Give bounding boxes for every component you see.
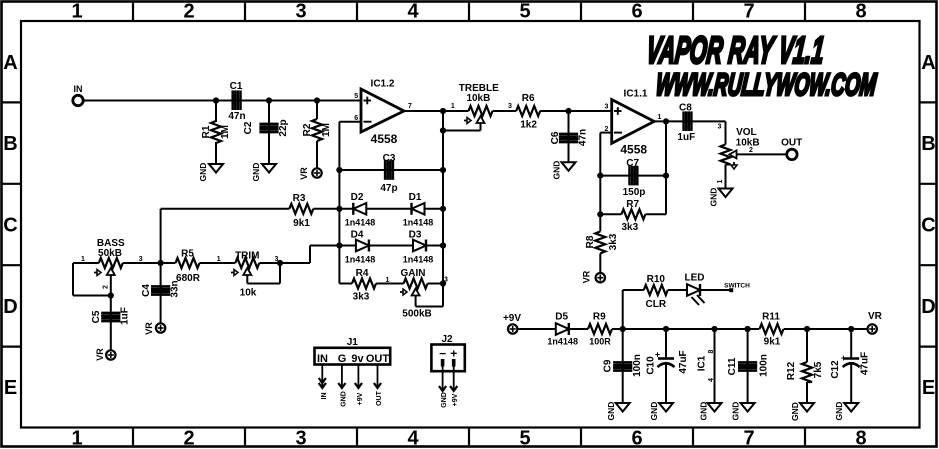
svg-text:47uF: 47uF: [860, 352, 871, 375]
svg-text:8: 8: [855, 1, 866, 23]
svg-text:C: C: [921, 215, 935, 237]
svg-text:2: 2: [749, 147, 753, 154]
svg-text:3: 3: [139, 256, 143, 263]
svg-text:3: 3: [718, 124, 722, 131]
svg-text:R5: R5: [181, 249, 194, 260]
svg-text:B: B: [3, 133, 17, 155]
svg-text:WWW.RULLYWOW.COM: WWW.RULLYWOW.COM: [654, 69, 878, 103]
svg-text:1uF: 1uF: [677, 132, 695, 143]
svg-text:C3: C3: [383, 153, 396, 164]
svg-text:8: 8: [708, 349, 715, 353]
svg-text:A: A: [3, 52, 17, 74]
svg-text:D4: D4: [351, 230, 364, 241]
svg-text:1: 1: [71, 428, 82, 449]
svg-text:1k2: 1k2: [520, 120, 537, 131]
svg-text:100R: 100R: [589, 337, 611, 347]
svg-text:7k5: 7k5: [813, 361, 824, 378]
svg-text:B: B: [921, 133, 935, 155]
svg-text:IC1.2: IC1.2: [371, 79, 395, 90]
svg-text:C6: C6: [550, 131, 561, 144]
svg-text:R2: R2: [302, 123, 313, 136]
svg-text:R10: R10: [647, 274, 666, 285]
svg-text:GND: GND: [251, 163, 261, 182]
svg-text:C2: C2: [243, 121, 254, 134]
svg-text:GND: GND: [198, 163, 208, 182]
svg-text:47n: 47n: [228, 111, 245, 122]
svg-text:IN: IN: [74, 84, 83, 94]
svg-text:4: 4: [407, 428, 419, 449]
svg-text:R4: R4: [356, 268, 369, 279]
svg-text:1uF: 1uF: [120, 307, 131, 325]
svg-text:4: 4: [407, 1, 419, 23]
svg-text:C5: C5: [91, 310, 102, 323]
svg-text:IN: IN: [317, 353, 328, 365]
svg-text:A: A: [921, 52, 935, 74]
svg-text:D: D: [3, 296, 17, 318]
svg-text:IC1: IC1: [697, 355, 708, 371]
svg-text:6: 6: [631, 428, 642, 449]
svg-text:3: 3: [295, 1, 306, 23]
svg-text:C9: C9: [603, 359, 614, 372]
svg-text:1n4148: 1n4148: [403, 255, 434, 265]
svg-text:1M: 1M: [321, 123, 332, 137]
svg-text:IN: IN: [321, 393, 328, 400]
svg-text:7: 7: [743, 428, 754, 449]
svg-text:+: +: [450, 347, 457, 361]
svg-text:C12: C12: [830, 360, 841, 379]
svg-text:GND: GND: [709, 188, 719, 207]
svg-text:GND: GND: [649, 402, 659, 421]
svg-text:1n4148: 1n4148: [345, 255, 376, 265]
svg-text:3k3: 3k3: [353, 292, 370, 303]
svg-text:33n: 33n: [170, 280, 181, 297]
svg-text:4558: 4558: [620, 143, 647, 157]
svg-text:J1: J1: [347, 337, 359, 348]
svg-text:10kB: 10kB: [736, 137, 760, 148]
svg-text:1: 1: [217, 256, 221, 263]
svg-text:47p: 47p: [380, 183, 397, 194]
svg-text:J2: J2: [441, 334, 453, 345]
svg-text:GAIN: GAIN: [401, 268, 426, 279]
svg-text:1: 1: [717, 179, 724, 183]
svg-text:5: 5: [354, 93, 358, 100]
svg-text:VR: VR: [95, 348, 105, 361]
svg-text:1: 1: [658, 114, 662, 121]
svg-text:10kB: 10kB: [466, 93, 490, 104]
svg-text:R3: R3: [293, 193, 306, 204]
svg-text:TRIM: TRIM: [235, 251, 259, 262]
svg-text:R1: R1: [201, 125, 212, 138]
svg-text:C: C: [3, 215, 17, 237]
svg-text:500kB: 500kB: [402, 309, 431, 320]
svg-text:R8: R8: [585, 235, 596, 248]
svg-text:4558: 4558: [371, 132, 398, 146]
svg-text:R11: R11: [762, 312, 780, 323]
svg-text:1: 1: [81, 256, 85, 263]
svg-text:150p: 150p: [623, 187, 646, 198]
svg-text:GND: GND: [441, 392, 448, 408]
svg-text:E: E: [4, 377, 17, 399]
svg-text:GND: GND: [790, 402, 800, 421]
svg-text:8: 8: [855, 428, 866, 449]
svg-text:5: 5: [519, 1, 530, 23]
svg-text:3k3: 3k3: [621, 222, 638, 233]
svg-text:9k1: 9k1: [293, 218, 310, 229]
svg-text:+: +: [841, 353, 846, 363]
svg-text:R7: R7: [626, 199, 639, 210]
svg-text:47n: 47n: [578, 129, 589, 146]
svg-text:2: 2: [183, 428, 194, 449]
svg-text:−: −: [439, 347, 446, 361]
svg-text:G: G: [338, 353, 347, 365]
svg-text:C4: C4: [141, 284, 152, 297]
svg-text:OUT: OUT: [781, 138, 802, 149]
svg-text:3k3: 3k3: [608, 233, 619, 250]
svg-text:GND: GND: [834, 402, 844, 421]
svg-text:GND: GND: [606, 402, 616, 421]
svg-text:R9: R9: [593, 312, 606, 323]
svg-text:GND: GND: [340, 391, 347, 407]
svg-text:LED: LED: [685, 273, 705, 284]
svg-text:D1: D1: [409, 192, 422, 203]
svg-text:D: D: [921, 296, 935, 318]
svg-text:+9V: +9V: [503, 313, 521, 324]
svg-text:7: 7: [408, 103, 412, 110]
svg-text:+9V: +9V: [452, 393, 459, 406]
svg-text:100n: 100n: [759, 354, 770, 377]
svg-text:47uF: 47uF: [678, 350, 689, 373]
svg-text:C1: C1: [230, 81, 243, 92]
svg-text:OUT: OUT: [366, 353, 390, 365]
svg-text:50kB: 50kB: [98, 248, 122, 259]
svg-text:D5: D5: [555, 312, 568, 323]
svg-text:C7: C7: [626, 158, 639, 169]
svg-text:1n4148: 1n4148: [547, 337, 578, 347]
svg-text:3: 3: [605, 104, 609, 111]
svg-text:R6: R6: [522, 93, 535, 104]
svg-text:10k: 10k: [240, 288, 257, 299]
svg-text:1M: 1M: [220, 125, 231, 139]
svg-text:E: E: [922, 377, 935, 399]
svg-text:VR: VR: [144, 322, 154, 335]
svg-text:1: 1: [71, 1, 82, 23]
svg-text:IC1.1: IC1.1: [624, 89, 648, 100]
svg-text:CLR: CLR: [646, 299, 667, 310]
svg-text:6: 6: [631, 1, 642, 23]
svg-text:C11: C11: [727, 357, 738, 375]
svg-text:1: 1: [386, 277, 390, 284]
svg-text:R12: R12: [786, 361, 797, 380]
svg-text:GND: GND: [731, 402, 741, 421]
svg-text:GND: GND: [552, 161, 562, 180]
svg-text:2: 2: [183, 1, 194, 23]
svg-text:1: 1: [451, 103, 455, 110]
svg-text:9v: 9v: [351, 353, 364, 365]
svg-text:D3: D3: [409, 230, 422, 241]
svg-text:1n4148: 1n4148: [403, 218, 434, 228]
svg-text:100n: 100n: [632, 354, 643, 377]
svg-text:+9V: +9V: [357, 392, 364, 405]
svg-text:22p: 22p: [278, 119, 289, 136]
svg-text:OUT: OUT: [376, 390, 383, 406]
svg-text:7: 7: [743, 1, 754, 23]
svg-text:VR: VR: [582, 270, 592, 283]
svg-text:VAPOR RAY V1.1: VAPOR RAY V1.1: [644, 29, 826, 72]
svg-text:3: 3: [295, 428, 306, 449]
svg-text:3: 3: [508, 103, 512, 110]
svg-text:VR: VR: [299, 167, 309, 180]
svg-text:D2: D2: [351, 192, 364, 203]
svg-text:C10: C10: [646, 356, 657, 375]
svg-text:C8: C8: [679, 103, 692, 114]
svg-text:VR: VR: [868, 311, 883, 322]
svg-text:1n4148: 1n4148: [345, 218, 376, 228]
svg-text:SWITCH: SWITCH: [724, 283, 750, 290]
svg-text:4: 4: [708, 378, 715, 382]
svg-text:GND: GND: [699, 402, 709, 421]
svg-text:9k1: 9k1: [764, 337, 781, 348]
svg-text:2: 2: [103, 285, 110, 289]
svg-text:5: 5: [519, 428, 530, 449]
